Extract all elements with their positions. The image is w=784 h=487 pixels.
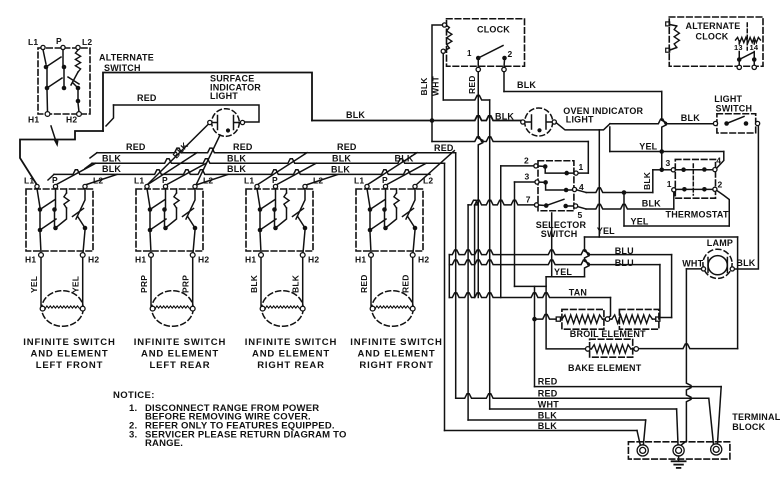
oven lamp terminal WHT (left) bbox=[701, 267, 705, 271]
svg-text:BLK: BLK bbox=[346, 110, 365, 120]
svg-text:INFINITE SWITCH: INFINITE SWITCH bbox=[23, 337, 115, 348]
svg-text:TAN: TAN bbox=[569, 287, 587, 297]
junction: clock BLK drop on main run bbox=[430, 118, 435, 123]
svg-text:BLK: BLK bbox=[227, 164, 246, 174]
junction: YEL crossing on clock BLK drop bbox=[659, 149, 664, 154]
svg-text:L1: L1 bbox=[28, 37, 38, 47]
svg-text:PRP: PRP bbox=[181, 275, 191, 293]
svg-text:BLK: BLK bbox=[419, 77, 429, 96]
wire: stepped drop to L1 of switch S1 bbox=[20, 131, 103, 185]
infinite switch S4 (right front) bbox=[354, 175, 433, 265]
thermostat internal contacts bbox=[675, 167, 712, 191]
svg-text:INFINITE SWITCH: INFINITE SWITCH bbox=[245, 337, 337, 348]
wire: BLK bus 2 over switch row bbox=[48, 174, 54, 180]
wire: broil left terminal feed bbox=[535, 315, 557, 320]
svg-text:THERMOSTAT: THERMOSTAT bbox=[666, 210, 729, 220]
alternate switch terminal L1 bbox=[41, 45, 45, 49]
svg-text:RED: RED bbox=[538, 388, 558, 398]
wire: selector pin 5 to thermostat pin 1 bbox=[578, 207, 586, 209]
infinite switch S2 (left rear) bbox=[134, 175, 213, 265]
svg-text:7: 7 bbox=[526, 195, 531, 205]
light switch terminals and contacts bbox=[713, 117, 759, 126]
svg-text:WHT: WHT bbox=[538, 399, 559, 409]
wire: BLK from clock pin 2 to thermostat pin 3 bbox=[503, 72, 505, 92]
oven indicator terminal (right) bbox=[552, 120, 556, 124]
clock motor coil bbox=[441, 23, 452, 53]
oven lamp (dashed circle with bulb) bbox=[703, 249, 732, 278]
wire: BLK bus 1 over switch row, drops to BLK terminal-block run bbox=[85, 163, 92, 168]
wire: YEL drop to bake element left bbox=[546, 277, 585, 349]
wire: TAN run to broil element center tap bbox=[448, 255, 450, 298]
junction: broil feed on RED riser bbox=[532, 317, 537, 322]
svg-text:2: 2 bbox=[718, 180, 723, 190]
terminal block lug L1 (left) bbox=[637, 445, 648, 456]
svg-text:BLK: BLK bbox=[102, 154, 121, 164]
wire: selector pin 2 feed bbox=[501, 165, 534, 167]
svg-text:RED: RED bbox=[126, 142, 146, 152]
thermostat dashed divider bbox=[692, 164, 694, 195]
pointer arrow to switch below bbox=[51, 126, 56, 142]
svg-text:PRP: PRP bbox=[139, 275, 149, 293]
svg-text:L2: L2 bbox=[82, 37, 92, 47]
broil element (two heating sections, dashed boxes) bbox=[562, 309, 604, 329]
selector pin 2 terminal bbox=[534, 164, 538, 168]
svg-text:YEL: YEL bbox=[639, 142, 657, 152]
oven indicator terminal (left) bbox=[521, 120, 525, 124]
svg-text:LIGHT: LIGHT bbox=[210, 91, 238, 101]
wire: RED from clock pin 1 down to TAN junction bbox=[478, 72, 483, 298]
clock (dashed enclosure) bbox=[447, 19, 525, 67]
wire: light switch to oven lamp BLK bbox=[735, 126, 759, 269]
svg-text:2: 2 bbox=[508, 49, 513, 59]
svg-text:RED: RED bbox=[233, 142, 253, 152]
bake element right terminal bbox=[634, 347, 639, 352]
svg-text:RED: RED bbox=[434, 143, 454, 153]
infinite switch S3 (right rear) bbox=[244, 175, 323, 265]
wire: diagonal P-S1 to BLK bus1 bbox=[56, 163, 96, 185]
svg-text:LAMP: LAMP bbox=[707, 238, 733, 248]
svg-text:SWITCH: SWITCH bbox=[541, 229, 578, 239]
wire: diagonal L2-S3 to BLK bus2 bbox=[306, 174, 338, 185]
svg-text:WHT: WHT bbox=[431, 75, 441, 96]
bake element (dashed box) bbox=[590, 339, 633, 357]
svg-text:3: 3 bbox=[525, 172, 530, 182]
wire: BLK from clock coil down to main run and selector pin 1 bbox=[432, 25, 442, 118]
svg-text:YEL: YEL bbox=[29, 276, 39, 293]
wire: branch down to YEL bake-circuit run bbox=[598, 130, 600, 237]
wire: alternate switch area to main BLK run (top horizontal) bbox=[103, 73, 312, 132]
broil element center terminal bbox=[605, 317, 610, 322]
selector pin 7 terminal bbox=[534, 203, 538, 207]
terminal block (dashed enclosure) bbox=[628, 442, 730, 459]
clock switch contact 2 bbox=[502, 56, 507, 61]
selector pin 4 terminal bbox=[572, 187, 576, 191]
wire: stub from selector 7 run down to TAN bbox=[474, 205, 476, 298]
thermostat pin 1 terminal bbox=[672, 188, 676, 192]
svg-text:YEL: YEL bbox=[631, 217, 649, 227]
svg-text:BLU: BLU bbox=[615, 246, 634, 256]
wire: main BLK run to oven indicator light bbox=[312, 116, 521, 121]
alternate clock (dashed enclosure) bbox=[669, 17, 763, 66]
svg-text:AND ELEMENT: AND ELEMENT bbox=[252, 349, 330, 360]
wire: YEL run below selector bbox=[546, 276, 584, 278]
svg-text:NOTICE:: NOTICE: bbox=[113, 390, 155, 401]
svg-text:RED: RED bbox=[359, 274, 369, 293]
svg-text:BLK: BLK bbox=[517, 80, 536, 90]
svg-text:BLK: BLK bbox=[538, 421, 557, 431]
clock switch arm bbox=[478, 46, 503, 59]
svg-text:BLK: BLK bbox=[395, 154, 414, 164]
bake element left terminal bbox=[586, 347, 591, 352]
svg-text:YEL: YEL bbox=[71, 276, 81, 293]
alternate switch (dashed enclosure) bbox=[38, 48, 90, 114]
alternate switch terminal H1 bbox=[45, 112, 50, 117]
clock switch contact 1 bbox=[476, 56, 481, 61]
alternate switch terminal P bbox=[61, 45, 65, 49]
alternate switch terminal H2 bbox=[77, 112, 82, 117]
alternate switch coil bbox=[75, 50, 80, 72]
svg-text:LEFT FRONT: LEFT FRONT bbox=[36, 360, 104, 371]
svg-text:BLK: BLK bbox=[495, 112, 514, 122]
svg-text:RED: RED bbox=[337, 142, 357, 152]
surface element E3 (right rear) bbox=[260, 258, 305, 327]
broil element resistor (right section) bbox=[612, 315, 653, 323]
selector internal contacts bbox=[538, 164, 574, 208]
svg-text:BLK: BLK bbox=[736, 258, 755, 268]
svg-text:P: P bbox=[56, 36, 62, 46]
svg-text:2: 2 bbox=[524, 156, 529, 166]
oven indicator light (neon lamp, dashed circle) bbox=[525, 108, 553, 136]
ground symbol bbox=[672, 456, 686, 468]
junction: YEL branch on selector pin 4 run bbox=[622, 190, 627, 195]
svg-text:ALTERNATE: ALTERNATE bbox=[99, 53, 154, 63]
svg-text:BLK: BLK bbox=[227, 154, 246, 164]
selector pin 3 terminal bbox=[535, 180, 539, 184]
svg-text:RED: RED bbox=[467, 75, 477, 94]
svg-text:BLK: BLK bbox=[642, 171, 652, 190]
notice text block bbox=[113, 390, 347, 449]
svg-text:1: 1 bbox=[579, 162, 584, 172]
wire: YEL riser from bake-circuit run bbox=[585, 237, 590, 277]
svg-text:13: 13 bbox=[734, 43, 743, 52]
svg-text:BLK: BLK bbox=[331, 165, 350, 175]
svg-text:AND ELEMENT: AND ELEMENT bbox=[358, 349, 436, 360]
thermostat pin 2 terminal bbox=[713, 187, 717, 191]
wire: WHT from clock coil down to terminal block bbox=[442, 54, 444, 101]
wire: selector pin 7 feed to BLK run bbox=[468, 200, 534, 205]
broil element resistor (left section) bbox=[562, 315, 603, 323]
alternate clock dashed divider bbox=[746, 23, 748, 50]
thermostat pin 4 terminal bbox=[713, 168, 717, 172]
svg-text:CLOCK: CLOCK bbox=[696, 32, 729, 42]
thermostat (dashed enclosure) bbox=[675, 159, 715, 198]
svg-text:BLK: BLK bbox=[291, 274, 301, 293]
alternate clock timer resistor bbox=[736, 37, 761, 42]
svg-text:BLK: BLK bbox=[332, 154, 351, 164]
svg-text:1: 1 bbox=[467, 49, 472, 58]
surface element E4 (right front) bbox=[370, 258, 415, 327]
svg-text:LEFT REAR: LEFT REAR bbox=[150, 360, 211, 371]
svg-text:SWITCH: SWITCH bbox=[104, 63, 141, 73]
svg-text:LIGHT: LIGHT bbox=[566, 115, 594, 125]
svg-text:YEL: YEL bbox=[554, 267, 572, 277]
wire: lamp WHT down to terminal block bbox=[686, 268, 701, 270]
svg-text:INFINITE SWITCH: INFINITE SWITCH bbox=[350, 337, 442, 348]
broil element left terminal bbox=[556, 317, 560, 321]
wire: YEL run to bake element (right side) bbox=[585, 236, 738, 238]
wire: selector pin 3 feed bbox=[515, 181, 535, 183]
svg-text:TERMINAL: TERMINAL bbox=[732, 412, 780, 422]
svg-text:YEL: YEL bbox=[597, 226, 615, 236]
wire: diagonal L2-S4 to RED bus corner bbox=[416, 151, 454, 185]
wire: RED riser bbox=[534, 286, 536, 386]
alternate switch terminal L2 bbox=[76, 45, 80, 49]
svg-text:BLK: BLK bbox=[538, 411, 557, 421]
wire: diagonal L1-S2 to RED bus bbox=[147, 153, 197, 185]
svg-text:1.: 1. bbox=[129, 403, 137, 414]
wire: RED feed stub bbox=[106, 105, 114, 126]
svg-text:BLOCK: BLOCK bbox=[732, 422, 765, 432]
svg-text:ALTERNATE: ALTERNATE bbox=[686, 21, 741, 31]
wire: diagonal from surface light down to L2 of S2 bbox=[196, 135, 220, 185]
surface element E1 (left front) bbox=[40, 258, 85, 327]
svg-text:BROIL ELEMENT: BROIL ELEMENT bbox=[570, 329, 646, 339]
thermostat pin 3 terminal bbox=[671, 168, 675, 172]
broil element right terminal bbox=[656, 317, 660, 321]
wire: diagonal L1-S4 to RED bus bbox=[367, 153, 417, 185]
alternate switch internal contacts bbox=[43, 50, 66, 112]
wire: diagonal P-S2 to BLK bus1 bbox=[166, 163, 206, 185]
alternate clock motor coil bbox=[666, 22, 680, 52]
surface indicator light (neon lamp, dashed circle) bbox=[212, 109, 241, 137]
surface light terminal (left) bbox=[208, 120, 212, 124]
alternate switch right contact with slash bbox=[68, 72, 80, 112]
junction: selector pin 4 run joining thermostat pin 3 feed bbox=[659, 168, 664, 173]
wire: diagonal P-S3 to BLK bus1 bbox=[276, 163, 316, 185]
wire: RED bus over switch row, drops to RED terminal-block run bbox=[90, 153, 97, 158]
selector pin 5 terminal bbox=[574, 204, 578, 208]
svg-text:CLOCK: CLOCK bbox=[477, 25, 510, 35]
svg-text:4: 4 bbox=[716, 156, 721, 166]
wire: BLK diagonal from surface light down to L1 of S2 bbox=[147, 125, 208, 186]
terminal block lug L2 (right) bbox=[711, 444, 722, 455]
svg-text:RED: RED bbox=[401, 274, 411, 293]
wire: RED run to terminal block (row 1) bbox=[535, 386, 722, 388]
bake element resistor bbox=[590, 348, 591, 350]
svg-text:BLK: BLK bbox=[249, 274, 259, 293]
surface light terminal (right) bbox=[240, 120, 244, 124]
wire: stub under selector to YEL run bbox=[551, 213, 553, 277]
svg-text:AND ELEMENT: AND ELEMENT bbox=[141, 349, 219, 360]
wire: diagonal L2-S2 to BLK bus2 bbox=[196, 174, 228, 185]
svg-text:BLU: BLU bbox=[615, 258, 634, 268]
alternate clock contacts 13/14 bbox=[737, 41, 757, 70]
svg-text:RED: RED bbox=[538, 376, 558, 386]
svg-text:WHT: WHT bbox=[682, 259, 703, 269]
surface element E2 (left rear) bbox=[150, 258, 195, 327]
infinite switch S1 (left front) bbox=[24, 175, 103, 265]
svg-text:5: 5 bbox=[578, 210, 583, 220]
svg-text:BLK: BLK bbox=[642, 199, 661, 209]
svg-text:BLK: BLK bbox=[681, 113, 700, 123]
svg-text:RIGHT REAR: RIGHT REAR bbox=[257, 360, 325, 371]
wire: thermostat pin 2 to YEL run bbox=[717, 191, 729, 227]
svg-text:3: 3 bbox=[666, 158, 671, 168]
svg-text:INFINITE SWITCH: INFINITE SWITCH bbox=[134, 337, 226, 348]
wire: diagonal P-S4 to BLK bus1 bbox=[386, 163, 426, 185]
svg-text:RED: RED bbox=[137, 93, 157, 103]
clock pin terminals bbox=[477, 60, 479, 67]
wire: diagonal L1-S3 to RED bus bbox=[257, 153, 307, 185]
svg-text:H2: H2 bbox=[66, 115, 77, 125]
svg-text:H1: H1 bbox=[28, 115, 39, 125]
svg-text:RANGE.: RANGE. bbox=[145, 438, 183, 449]
wire: selector pin 4 to thermostat pin 3 bbox=[577, 190, 587, 193]
selector pin 1 terminal bbox=[574, 171, 578, 175]
svg-text:BAKE ELEMENT: BAKE ELEMENT bbox=[568, 363, 642, 373]
wire: YEL run to thermostat pin 4 bbox=[610, 151, 724, 153]
svg-text:1: 1 bbox=[667, 179, 672, 189]
wire: oven indicator to light switch (BLK) bbox=[556, 123, 610, 130]
svg-text:SWITCH: SWITCH bbox=[716, 103, 753, 113]
oven lamp terminal BLK (right) bbox=[730, 267, 734, 271]
svg-text:RIGHT FRONT: RIGHT FRONT bbox=[359, 360, 433, 371]
svg-text:3.: 3. bbox=[129, 429, 137, 440]
terminal block lug N (middle) bbox=[673, 445, 684, 456]
light switch (dashed enclosure) bbox=[717, 114, 756, 133]
svg-text:BLK: BLK bbox=[102, 164, 121, 174]
wire: RED feed to surface indicator light bbox=[114, 105, 260, 122]
wire: BLU run 1 to broil element bbox=[449, 250, 671, 255]
wire: branch down to YEL oven run bbox=[609, 127, 611, 152]
wire: BLU run 2 to broil element bbox=[449, 260, 660, 265]
svg-text:AND ELEMENT: AND ELEMENT bbox=[31, 349, 109, 360]
wire: diagonal L2-S1 to BLK bus2 bbox=[85, 174, 117, 185]
selector switch (dashed enclosure) bbox=[538, 161, 574, 211]
